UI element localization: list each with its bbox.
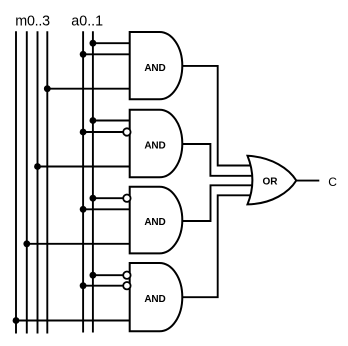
svg-text:AND: AND	[144, 217, 165, 228]
node m2/U2	[34, 163, 41, 170]
wire a0 to U4 bubble	[83, 285, 123, 287]
wire U2 output to OR input 2	[181, 144, 253, 176]
svg-text:a0..1: a0..1	[71, 14, 103, 30]
svg-text:C: C	[328, 175, 337, 189]
node a1/U4	[90, 272, 97, 279]
OR gate U5	[248, 156, 297, 205]
node a1/U2	[90, 117, 97, 124]
svg-text:AND: AND	[144, 141, 165, 152]
wire a1 to U4 bubble	[93, 274, 123, 276]
AND gate U2	[130, 110, 183, 178]
AND gate U3	[130, 187, 183, 254]
bus line a1	[92, 31, 94, 332]
wire a0 to U3 pin2	[83, 208, 131, 210]
svg-text:AND: AND	[144, 63, 165, 74]
svg-text:OR: OR	[263, 176, 279, 187]
node m0/U4	[13, 317, 20, 324]
node a0/U3	[80, 206, 87, 213]
bus line m0	[15, 31, 17, 333]
wire U1 output to OR input 1	[181, 66, 253, 166]
AND gate U4	[130, 263, 183, 331]
node a1/U3	[90, 195, 97, 202]
wire U4 output to OR input 4	[181, 195, 253, 297]
wire m1 to U3 pin3	[27, 243, 131, 245]
node m1/U3	[23, 240, 30, 247]
wire a0 to U2 bubble	[83, 131, 123, 133]
wire m2 to U2 pin3	[38, 166, 132, 168]
node a0/U4	[80, 282, 87, 289]
inverter bubble U4 pin2	[123, 282, 130, 289]
wire m3 to U1 pin3	[47, 88, 131, 90]
node a0/U1	[80, 51, 87, 58]
inverter bubble U2 pin2	[123, 128, 130, 135]
bus line m3	[46, 31, 48, 333]
wire a1 to U1 pin1	[93, 42, 131, 44]
AND gate U1	[130, 32, 183, 99]
wire OR output to C	[296, 180, 319, 182]
wire a0 to U1 pin2	[83, 53, 131, 55]
inverter bubble U4 pin1	[123, 272, 130, 279]
node a0/U2	[80, 129, 87, 136]
bus line m2	[37, 31, 39, 333]
bus line a0	[82, 31, 84, 332]
wire a1 to U3 bubble	[93, 197, 123, 199]
svg-text:AND: AND	[144, 294, 165, 305]
node m3/U1	[44, 85, 51, 92]
svg-text:m0..3: m0..3	[15, 14, 50, 30]
wire U3 output to OR input 3	[181, 185, 253, 221]
bus line m1	[26, 31, 28, 333]
inverter bubble U3 pin1	[123, 195, 130, 202]
node a1/U1	[90, 40, 97, 47]
wire m0 to U4 pin3	[16, 320, 131, 322]
wire a1 to U2 pin1	[93, 120, 131, 122]
